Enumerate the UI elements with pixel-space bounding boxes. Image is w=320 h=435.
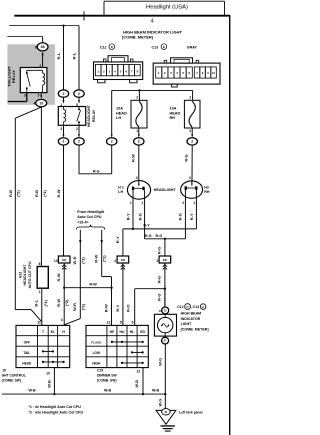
svg-text:2: 2: [111, 140, 113, 144]
svg-text:HIGH: HIGH: [92, 362, 101, 366]
svg-text:2: 2: [39, 290, 41, 294]
svg-text:(*2): (*2): [16, 190, 21, 197]
svg-text:3: 3: [60, 127, 62, 131]
svg-text:R-B: R-B: [34, 190, 39, 197]
svg-text:C13: C13: [193, 305, 199, 309]
svg-text:2: 2: [189, 96, 191, 100]
svg-text:HEAD: HEAD: [170, 111, 181, 115]
svg-text:10: 10: [39, 101, 43, 105]
svg-text:*2 : w/o Headlight Auto Cut CP: *2 : w/o Headlight Auto Cut CPU: [29, 411, 84, 415]
svg-text:R-Y: R-Y: [126, 213, 131, 220]
svg-text:(*1): (*1): [80, 257, 85, 264]
svg-text:(*2): (*2): [64, 299, 69, 306]
svg-text:12: 12: [107, 320, 111, 324]
svg-text:8: 8: [35, 45, 37, 49]
svg-text:R-Y: R-Y: [115, 304, 120, 311]
svg-text:D: D: [187, 305, 189, 309]
svg-text:HU: HU: [120, 330, 125, 334]
svg-text:8: 8: [39, 262, 41, 266]
svg-text:[COMB. METER]: [COMB. METER]: [181, 328, 209, 332]
svg-text:HEADLIGHT: HEADLIGHT: [23, 264, 27, 286]
svg-text:R-G: R-G: [157, 276, 162, 283]
svg-text:RH: RH: [204, 190, 210, 194]
svg-text:1: 1: [136, 129, 138, 133]
svg-text:R-Y: R-Y: [115, 236, 120, 243]
svg-text:10: 10: [212, 71, 215, 75]
svg-text:2: 2: [142, 201, 144, 205]
svg-text:W-B: W-B: [104, 389, 112, 393]
svg-text:HEAD: HEAD: [116, 111, 127, 115]
svg-text:(*1): (*1): [80, 303, 85, 310]
svg-text:10A: 10A: [170, 107, 177, 111]
svg-text:C13: C13: [152, 46, 159, 50]
svg-text:HEADLIGHT: HEADLIGHT: [154, 188, 177, 192]
svg-text:OFF: OFF: [24, 341, 30, 345]
svg-text:R-G: R-G: [145, 234, 152, 238]
svg-text:1: 1: [130, 201, 132, 205]
svg-text:FLASH: FLASH: [91, 341, 101, 345]
svg-text:From Headlight: From Headlight: [77, 210, 105, 214]
svg-text:[COMB. SW]: [COMB. SW]: [97, 378, 116, 382]
svg-text:E: E: [164, 339, 166, 343]
svg-text:R-W: R-W: [131, 154, 136, 162]
svg-text:3: 3: [24, 93, 26, 97]
svg-text:LIGHT: LIGHT: [181, 322, 193, 326]
svg-text:11: 11: [37, 320, 41, 324]
svg-text:4: 4: [34, 101, 36, 105]
svg-text:W-B: W-B: [135, 380, 139, 388]
svg-text:[COMB. METER]: [COMB. METER]: [122, 35, 154, 40]
svg-text:10: 10: [159, 309, 163, 313]
svg-text:3: 3: [156, 259, 158, 263]
svg-text:W-G: W-G: [158, 399, 162, 407]
svg-text:R-G: R-G: [157, 247, 162, 254]
svg-text:W-B: W-B: [152, 389, 160, 393]
svg-text:RELAY: RELAY: [92, 109, 96, 122]
svg-text:2: 2: [182, 201, 184, 205]
svg-text:(COMB. SW): (COMB. SW): [2, 378, 21, 382]
svg-text:10: 10: [46, 371, 50, 375]
svg-text:TAIL: TAIL: [23, 351, 30, 355]
svg-text:R-L: R-L: [33, 299, 38, 306]
svg-text:EL: EL: [51, 330, 55, 334]
svg-text:H 1: H 1: [118, 185, 124, 189]
svg-text:C12: C12: [100, 46, 107, 50]
svg-text:RELAY: RELAY: [11, 70, 16, 84]
svg-text:AUTO CUT CPU: AUTO CUT CPU: [28, 261, 32, 288]
svg-text:R-W: R-W: [89, 283, 97, 287]
svg-text:H12: H12: [19, 272, 23, 279]
svg-text:13: 13: [136, 370, 140, 374]
svg-text:R-G: R-G: [156, 234, 163, 238]
svg-text:(*1): (*1): [102, 255, 107, 262]
svg-text:RH: RH: [170, 116, 176, 120]
svg-text:R-W: R-W: [56, 273, 61, 281]
svg-text:3: 3: [189, 129, 191, 133]
svg-text:INDICATOR: INDICATOR: [181, 317, 201, 321]
svg-text:R-G: R-G: [184, 154, 189, 161]
svg-text:1: 1: [193, 201, 195, 205]
svg-text:R-Y: R-Y: [189, 213, 194, 220]
svg-text:Headlight (USA): Headlight (USA): [146, 4, 188, 10]
svg-text:5: 5: [38, 93, 40, 97]
svg-text:10: 10: [54, 259, 58, 263]
svg-text:10A: 10A: [116, 107, 123, 111]
svg-text:GRAY: GRAY: [187, 46, 198, 50]
svg-text:3: 3: [136, 176, 138, 180]
svg-text:4: 4: [151, 18, 154, 24]
svg-text:Left kick panel: Left kick panel: [179, 411, 203, 415]
svg-text:*1 : w/ Headlight Auto Cut CPU: *1 : w/ Headlight Auto Cut CPU: [29, 405, 82, 409]
svg-text:ED: ED: [140, 330, 145, 334]
svg-text:2: 2: [39, 64, 41, 68]
svg-text:R-B: R-B: [8, 190, 13, 197]
svg-text:LOW: LOW: [93, 351, 100, 355]
svg-text:R-W: R-W: [104, 304, 109, 312]
svg-text:6: 6: [132, 320, 134, 324]
svg-text:R-G: R-G: [157, 294, 162, 301]
svg-text:3: 3: [189, 176, 191, 180]
svg-text:LH: LH: [118, 190, 123, 194]
svg-text:IE: IE: [165, 410, 168, 414]
svg-text:2: 2: [78, 92, 80, 96]
svg-text:C15: C15: [97, 368, 103, 372]
svg-text:HEADLIGHT: HEADLIGHT: [87, 104, 91, 127]
svg-text:R-G: R-G: [177, 213, 182, 220]
svg-text:E: E: [163, 45, 165, 49]
svg-text:,: ,: [191, 305, 192, 309]
svg-text:W-B: W-B: [47, 380, 51, 388]
svg-text:HEAD: HEAD: [22, 362, 32, 366]
svg-text:2: 2: [138, 140, 140, 144]
svg-text:4: 4: [61, 318, 63, 322]
svg-text:2: 2: [76, 127, 78, 131]
svg-text:H2: H2: [204, 185, 209, 189]
svg-text:W-R: W-R: [72, 256, 77, 264]
svg-text:R-L: R-L: [71, 52, 76, 59]
svg-text:2: 2: [63, 92, 65, 96]
svg-text:HF: HF: [110, 330, 115, 334]
svg-text:15: 15: [2, 368, 6, 372]
svg-text:Auto Cut CPU: Auto Cut CPU: [77, 215, 102, 219]
svg-text:(*1): (*1): [43, 299, 48, 306]
svg-text:R-G: R-G: [93, 170, 100, 174]
svg-text:W-B: W-B: [28, 389, 36, 393]
svg-text:LH: LH: [116, 116, 121, 120]
svg-text:R-W: R-W: [56, 189, 61, 197]
svg-text:R-G: R-G: [138, 213, 143, 220]
svg-text:W-R: W-R: [72, 303, 77, 311]
svg-text:4: 4: [114, 259, 116, 263]
svg-text:GHT CONTROL: GHT CONTROL: [2, 373, 26, 377]
svg-text:R-W: R-W: [94, 254, 99, 262]
svg-text:HIGH BEAM: HIGH BEAM: [181, 312, 202, 316]
svg-text:DIMMER SW: DIMMER SW: [97, 373, 117, 377]
svg-text:2: 2: [63, 140, 65, 144]
svg-text:2: 2: [78, 140, 80, 144]
svg-text:2: 2: [136, 96, 138, 100]
svg-text:E: E: [202, 305, 204, 309]
svg-text:5: 5: [120, 320, 122, 324]
svg-text:R-Y: R-Y: [143, 223, 150, 227]
svg-text:1B: 1B: [41, 45, 46, 49]
svg-text:<15-4>: <15-4>: [77, 220, 88, 224]
svg-text:W-G: W-G: [158, 358, 162, 366]
svg-text:R-W: R-W: [56, 299, 61, 307]
svg-text:C12: C12: [177, 305, 183, 309]
svg-text:HL: HL: [130, 330, 135, 334]
svg-text:2: 2: [191, 140, 193, 144]
svg-text:R-L: R-L: [56, 52, 61, 59]
svg-text:(*1): (*1): [42, 190, 47, 197]
svg-text:R-O: R-O: [126, 305, 131, 312]
